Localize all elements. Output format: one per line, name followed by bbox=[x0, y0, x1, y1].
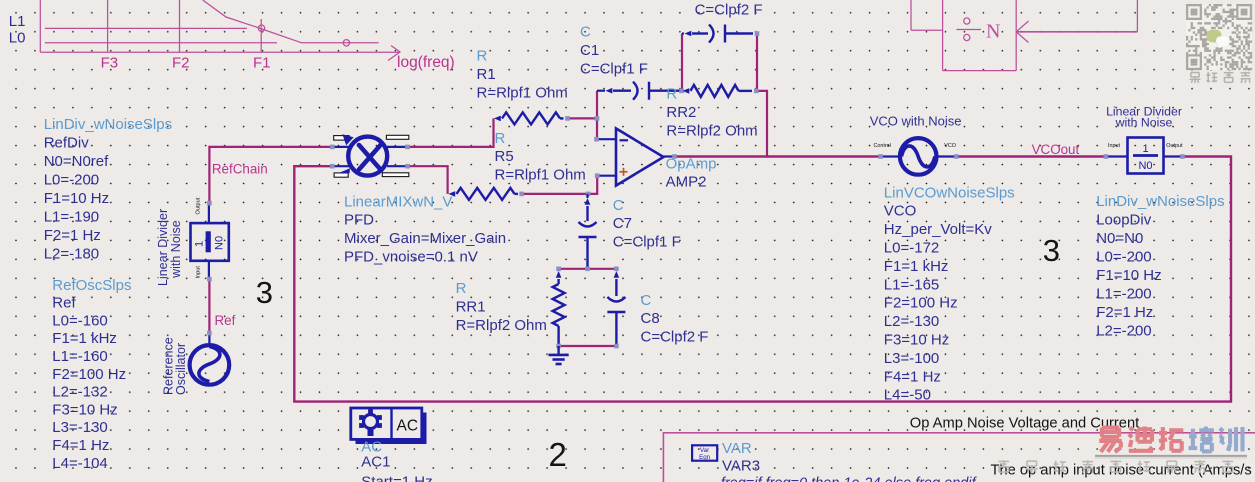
svg-text:AMP2: AMP2 bbox=[666, 174, 707, 191]
svg-text:R5: R5 bbox=[495, 148, 514, 165]
svg-text:F4=1 Hz: F4=1 Hz bbox=[52, 437, 109, 454]
svg-text:R=Rlpf1 Ohm: R=Rlpf1 Ohm bbox=[477, 84, 568, 101]
svg-text:L0=-200: L0=-200 bbox=[44, 172, 99, 189]
svg-text:RefDiv: RefDiv bbox=[44, 135, 90, 152]
svg-text:R1: R1 bbox=[477, 66, 496, 83]
svg-text:Ref: Ref bbox=[215, 313, 236, 328]
svg-text:R: R bbox=[666, 85, 677, 102]
svg-text:F3=10 Hz: F3=10 Hz bbox=[52, 401, 117, 418]
svg-text:R=Rlpf2 Ohm: R=Rlpf2 Ohm bbox=[456, 317, 547, 334]
svg-text:with Noise: with Noise bbox=[169, 220, 183, 279]
svg-text:F4=1 Hz: F4=1 Hz bbox=[884, 368, 941, 385]
svg-text:L2=-200: L2=-200 bbox=[1096, 323, 1151, 340]
svg-text:Control: Control bbox=[874, 143, 891, 149]
svg-text:L0: L0 bbox=[9, 30, 26, 47]
svg-text:C8: C8 bbox=[641, 310, 660, 327]
svg-text:1: 1 bbox=[1142, 143, 1148, 155]
svg-text:C=Clpf2 F: C=Clpf2 F bbox=[695, 2, 763, 19]
svg-text:C=Clpf1 F: C=Clpf1 F bbox=[613, 234, 681, 251]
svg-text:F1=10 Hz: F1=10 Hz bbox=[1096, 267, 1161, 284]
svg-text:C1: C1 bbox=[580, 42, 599, 59]
svg-text:R=Rlpf1 Ohm: R=Rlpf1 Ohm bbox=[495, 167, 586, 184]
svg-text:F2=100 Hz: F2=100 Hz bbox=[52, 366, 126, 383]
svg-text:L2=-130: L2=-130 bbox=[884, 313, 939, 330]
svg-text:C: C bbox=[613, 197, 624, 214]
svg-text:R: R bbox=[495, 130, 506, 147]
svg-text:RR2: RR2 bbox=[666, 104, 696, 121]
svg-text:RefChain: RefChain bbox=[212, 162, 268, 177]
svg-text:AC1: AC1 bbox=[361, 454, 390, 471]
svg-text:F1=1 kHz: F1=1 kHz bbox=[884, 258, 949, 275]
svg-text:freq=if freq=0 then 1e-24 else: freq=if freq=0 then 1e-24 else freq endi… bbox=[721, 476, 978, 482]
svg-text:F1: F1 bbox=[253, 55, 271, 72]
svg-text:L4=-104: L4=-104 bbox=[52, 455, 107, 472]
svg-text:L1=-190: L1=-190 bbox=[44, 209, 99, 226]
svg-text:Linear Divider: Linear Divider bbox=[156, 209, 170, 286]
svg-text:F2: F2 bbox=[172, 55, 190, 72]
svg-text:L1=-160: L1=-160 bbox=[52, 348, 107, 365]
svg-text:N0=N0ref: N0=N0ref bbox=[44, 153, 109, 170]
svg-text:L0=-172: L0=-172 bbox=[884, 240, 939, 257]
svg-text:L1=-165: L1=-165 bbox=[884, 276, 939, 293]
svg-text:L0=-200: L0=-200 bbox=[1096, 249, 1151, 266]
svg-text:VCOout: VCOout bbox=[1032, 142, 1080, 157]
svg-text:F2=1 Hz: F2=1 Hz bbox=[44, 227, 101, 244]
svg-text:log(freq): log(freq) bbox=[397, 54, 455, 71]
svg-text:L3=-100: L3=-100 bbox=[884, 350, 939, 367]
svg-text:Hz_per_Volt=Kv: Hz_per_Volt=Kv bbox=[884, 221, 992, 238]
svg-text:F3: F3 bbox=[101, 55, 119, 72]
svg-text:N: N bbox=[986, 21, 1000, 43]
svg-text:F1=10 Hz: F1=10 Hz bbox=[44, 190, 109, 207]
svg-text:RR1: RR1 bbox=[456, 299, 486, 316]
svg-text:L4=-50: L4=-50 bbox=[884, 387, 931, 404]
svg-text:VAR: VAR bbox=[722, 440, 752, 457]
svg-text:Ref: Ref bbox=[52, 295, 76, 312]
svg-text:L1: L1 bbox=[9, 13, 26, 30]
svg-text:C7: C7 bbox=[613, 215, 632, 232]
svg-text:R: R bbox=[477, 48, 488, 65]
svg-text:Start=1 Hz: Start=1 Hz bbox=[361, 474, 432, 482]
svg-text:with Noise: with Noise bbox=[1115, 116, 1173, 130]
svg-text:L2=-132: L2=-132 bbox=[52, 384, 107, 401]
svg-text:C=Clpf2 F: C=Clpf2 F bbox=[641, 329, 709, 346]
svg-text:C: C bbox=[641, 292, 652, 309]
svg-text:L2=-180: L2=-180 bbox=[44, 246, 99, 263]
svg-text:VAR3: VAR3 bbox=[722, 457, 760, 474]
svg-text:VCO: VCO bbox=[944, 143, 956, 149]
svg-text:N0=N0: N0=N0 bbox=[1096, 230, 1143, 247]
svg-text:Input: Input bbox=[1108, 143, 1120, 149]
svg-text:3: 3 bbox=[256, 275, 273, 310]
svg-text:PFD_vnoise=0.1 nV: PFD_vnoise=0.1 nV bbox=[344, 249, 478, 266]
svg-text:1: 1 bbox=[194, 241, 206, 247]
svg-text:LoopDiv: LoopDiv bbox=[1096, 212, 1152, 229]
svg-text:Mixer_Gain=Mixer_Gain: Mixer_Gain=Mixer_Gain bbox=[344, 230, 506, 247]
svg-text:F3=10 Hz: F3=10 Hz bbox=[884, 332, 949, 349]
svg-text:LinDiv_wNoiseSlps: LinDiv_wNoiseSlps bbox=[44, 116, 172, 133]
svg-text:LinVCOwNoiseSlps: LinVCOwNoiseSlps bbox=[884, 184, 1015, 201]
svg-text:L0=-160: L0=-160 bbox=[52, 312, 107, 329]
svg-text:LinDiv_wNoiseSlps: LinDiv_wNoiseSlps bbox=[1096, 193, 1224, 210]
svg-text:C: C bbox=[580, 24, 591, 41]
svg-text:VCO: VCO bbox=[884, 203, 917, 220]
svg-text:AC: AC bbox=[397, 418, 419, 435]
svg-text:R=Rlpf2 Ohm: R=Rlpf2 Ohm bbox=[666, 122, 757, 139]
svg-text:R: R bbox=[456, 280, 467, 297]
svg-text:Input: Input bbox=[196, 266, 202, 279]
svg-text:OpAmp: OpAmp bbox=[666, 156, 717, 173]
svg-text:L3=-130: L3=-130 bbox=[52, 419, 107, 436]
svg-text:Eqn: Eqn bbox=[699, 454, 711, 461]
svg-text:F2=100 Hz: F2=100 Hz bbox=[884, 295, 958, 312]
svg-text:Output: Output bbox=[196, 197, 202, 214]
svg-text:F2=1 Hz: F2=1 Hz bbox=[1096, 304, 1153, 321]
svg-text:Output: Output bbox=[1166, 143, 1183, 149]
svg-text:F1=1 kHz: F1=1 kHz bbox=[52, 330, 117, 347]
svg-text:LinearMIXwN_V: LinearMIXwN_V bbox=[344, 193, 452, 210]
svg-text:C=Clpf1 F: C=Clpf1 F bbox=[580, 60, 648, 77]
svg-text:VCO with Noise: VCO with Noise bbox=[870, 113, 962, 128]
svg-text:2: 2 bbox=[549, 436, 567, 473]
svg-text:3: 3 bbox=[1043, 233, 1060, 268]
svg-text:N0: N0 bbox=[214, 236, 226, 250]
svg-text:RefOscSlps: RefOscSlps bbox=[52, 277, 131, 294]
svg-text:Oscillator: Oscillator bbox=[174, 343, 188, 395]
svg-text:N0: N0 bbox=[1138, 160, 1152, 172]
svg-text:PFD: PFD bbox=[344, 212, 374, 229]
svg-text:L1=-200: L1=-200 bbox=[1096, 286, 1151, 303]
